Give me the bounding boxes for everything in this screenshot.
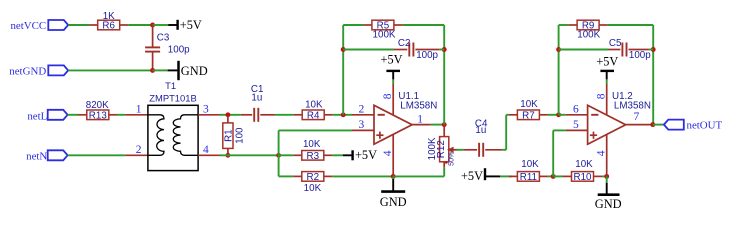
svg-text:netVCC: netVCC [10, 20, 46, 32]
net label netL [27, 110, 67, 123]
svg-text:10K: 10K [520, 99, 538, 110]
svg-text:820K: 820K [86, 100, 109, 111]
svg-text:100p: 100p [168, 44, 190, 55]
resistor R3 [293, 151, 332, 163]
svg-text:+5V: +5V [596, 55, 618, 69]
designator U1.2 [612, 91, 633, 102]
wire branch to R2 [279, 175, 294, 177]
pin 3 stub of U1.1 [352, 129, 374, 131]
junction node fb-right/C2 [442, 47, 447, 52]
pin 7 output lead of U1.2 [626, 124, 653, 126]
svg-text:7: 7 [634, 111, 640, 123]
value 10K of R11 [521, 159, 539, 170]
svg-text:C5: C5 [609, 38, 622, 49]
value 100p of C3 [168, 44, 190, 55]
wire feedback right column [443, 25, 445, 125]
wire node to R3 [279, 154, 294, 156]
svg-text:netL: netL [27, 110, 47, 122]
net label netN [26, 150, 67, 162]
value 100 of R1 [234, 127, 245, 144]
pin 3 lead of T1 [198, 114, 219, 116]
junction node pin4/R1 [225, 153, 230, 158]
power +5V (at R3) [343, 148, 377, 162]
svg-text:LM358N: LM358N [400, 100, 437, 111]
power +5V (top left) [168, 18, 202, 32]
pin pad dot of R12 [445, 161, 448, 164]
junction node R10/GND [604, 174, 609, 179]
svg-text:4: 4 [203, 144, 209, 156]
wire +5V to R11 [500, 175, 512, 177]
wire fb2 top left [559, 24, 569, 26]
junction node fb2-right/C5 [651, 47, 656, 52]
wire C1 to R4 [275, 114, 294, 116]
wire node to pin6 [559, 114, 566, 116]
value 1u of C4 [475, 125, 486, 136]
svg-text:R13: R13 [89, 111, 108, 122]
wire node up to pin5 [553, 130, 566, 176]
pin number 5 of U1.2 [573, 119, 579, 131]
svg-text:100K: 100K [577, 29, 600, 40]
value 100K of R12 [427, 137, 438, 160]
value 1K of R6 [103, 11, 115, 22]
junction node R2/GND [391, 174, 396, 179]
wire fb top right [402, 24, 444, 26]
svg-text:1u: 1u [251, 93, 262, 104]
value 100p of C2 [416, 50, 438, 61]
plus sign of U1.1 [376, 132, 383, 139]
svg-text:+5V: +5V [381, 53, 403, 67]
label C4 [475, 118, 488, 129]
pin 4 lead of U1.1 [392, 134, 394, 176]
junction node R11/R10/pin5 [551, 174, 556, 179]
transformer T1 body [148, 105, 198, 170]
resistor R10 [563, 172, 602, 184]
svg-text:6: 6 [573, 103, 579, 115]
wire fb2 right column [652, 25, 654, 125]
svg-text:3: 3 [203, 103, 209, 115]
wire R10 to GND node [602, 175, 607, 177]
capacitor C4 [463, 143, 502, 157]
pin 4 lead of T1 [198, 154, 219, 156]
resistor R11 [509, 172, 548, 184]
value 1u of C1 [251, 93, 262, 104]
designator U1.1 [398, 91, 419, 102]
svg-text:50%: 50% [449, 152, 456, 166]
wire +5V to pin8 U1.2 [606, 79, 608, 83]
svg-text:R2: R2 [307, 172, 320, 183]
transformer T1 value ZMPT101B [149, 93, 196, 104]
wire R2 to GND node [332, 175, 393, 177]
power +5V (above U1.1) [381, 53, 403, 80]
pin 1 output lead of U1.1 [412, 124, 431, 126]
wire R13 to T1 pin1 [117, 114, 125, 116]
junction node out2 [650, 122, 655, 127]
value LM358N of U1.2 [614, 100, 651, 111]
svg-text:10K: 10K [305, 100, 323, 111]
junction node out1 [442, 122, 447, 127]
svg-text:100K: 100K [373, 29, 396, 40]
svg-text:+5V: +5V [461, 169, 483, 183]
svg-text:netGND: netGND [9, 66, 46, 78]
svg-text:C2: C2 [398, 38, 411, 49]
wire wiper to C4 [457, 149, 464, 151]
lead out1 to R12 [443, 125, 445, 137]
wire R6 to node C3top [128, 24, 152, 26]
potentiometer R12 [436, 137, 449, 162]
wire netGND to node [68, 69, 152, 71]
wire T1 pin4 row [220, 154, 279, 156]
label C3 [157, 33, 170, 44]
pin number 3 of U1.1 [359, 119, 365, 131]
svg-text:+5V: +5V [180, 18, 202, 32]
svg-text:8: 8 [596, 93, 608, 99]
op-amp U1.1 triangle [374, 105, 412, 144]
svg-text:R3: R3 [307, 151, 320, 162]
pin 1 lead of T1 [125, 114, 147, 116]
wire netVCC to R6 [68, 24, 89, 26]
wire node to GND sym [153, 69, 168, 71]
svg-text:GND: GND [595, 197, 622, 211]
value 10K of R7 [520, 99, 538, 110]
plus sign of U1.2 [590, 132, 597, 139]
label C1 [251, 84, 264, 95]
wire fb top left [343, 24, 363, 26]
svg-text:1K: 1K [103, 11, 115, 22]
wire C2 right [440, 49, 445, 51]
capacitor C5 [609, 43, 649, 57]
pin number 3 of T1 [203, 103, 209, 115]
svg-text:5: 5 [573, 119, 579, 131]
wire R3 to +5V [332, 154, 343, 156]
resistor R4 [294, 110, 333, 122]
pin 2 stub of U1.1 [352, 114, 374, 116]
transformer T1 secondary winding [173, 115, 198, 156]
wire netL to R13 [68, 114, 79, 116]
wire netN to T1 pin2 [68, 154, 126, 156]
wire GND node to R12 bottom [393, 167, 444, 176]
wire C4 to R7 [502, 115, 509, 150]
pin 5 stub of U1.2 [566, 129, 588, 131]
pin number 1 of U1.1 [417, 113, 423, 125]
pin 6 stub of U1.2 [566, 114, 588, 116]
svg-text:100p: 100p [629, 50, 651, 61]
svg-text:10K: 10K [575, 159, 593, 170]
pin number 4 of U1.2 [596, 150, 608, 156]
value 10K of R3 [303, 139, 321, 150]
net label netVCC [10, 20, 68, 32]
ground GND (under U1.1) [380, 176, 407, 209]
net label netGND [9, 65, 68, 77]
wire out2 to netOUT [653, 124, 664, 126]
svg-text:1u: 1u [475, 125, 486, 136]
junction node pin3/R1 [225, 112, 230, 117]
resistor R6 [89, 20, 128, 32]
svg-text:3: 3 [359, 119, 365, 131]
net label netOUT [664, 120, 723, 132]
svg-text:R4: R4 [307, 111, 320, 122]
svg-text:R7: R7 [522, 111, 535, 122]
value 10K of R4 [305, 100, 323, 111]
wire vertical branch to +input and R2 [278, 130, 280, 176]
pin 8 lead of U1.1 [392, 84, 394, 115]
resistor R2 [293, 172, 332, 184]
wiper arrow of R12 [447, 147, 457, 153]
junction node R7/fb2 [556, 112, 561, 117]
label 50% of R12 [449, 152, 456, 166]
svg-text:R10: R10 [574, 172, 593, 183]
pin number 2 of T1 [136, 144, 142, 156]
svg-text:C3: C3 [157, 33, 170, 44]
svg-text:10K: 10K [521, 159, 539, 170]
svg-text:4: 4 [382, 150, 394, 156]
transformer T1 designator [165, 80, 176, 91]
svg-text:+5V: +5V [355, 148, 377, 162]
junction node GND/C3 [150, 68, 155, 73]
op-amp U1.2 triangle [588, 105, 626, 144]
svg-text:T1: T1 [165, 80, 176, 91]
value LM358N of U1.1 [400, 100, 437, 111]
wire C5 left [559, 49, 609, 51]
svg-text:1: 1 [417, 113, 423, 125]
value 100K of R5 [373, 29, 396, 40]
lead R12 bottom [443, 162, 445, 168]
pin number 7 of U1.2 [634, 111, 640, 123]
svg-text:4: 4 [596, 150, 608, 156]
power +5V (at R11) [461, 168, 500, 183]
svg-text:10K: 10K [304, 183, 322, 194]
wire R11 to node [548, 175, 553, 177]
wire to +input of U1.1 [279, 129, 352, 131]
wire output to node [431, 124, 445, 126]
wire fb2 top right [608, 24, 654, 26]
minus sign of U1.1 [378, 114, 385, 116]
wire T1 pin3 to C1 [220, 114, 241, 116]
ground GND (under U1.2) [595, 176, 622, 211]
svg-text:1: 1 [136, 103, 142, 115]
resistor R7 [509, 110, 548, 122]
wire C2 left [343, 49, 393, 51]
label C2 [398, 38, 411, 49]
svg-text:100K: 100K [427, 137, 438, 160]
value 10K of R2 [304, 183, 322, 194]
svg-text:8: 8 [382, 93, 394, 99]
svg-text:R1: R1 [224, 129, 235, 142]
value 820K of R13 [86, 100, 109, 111]
svg-text:100: 100 [234, 127, 245, 144]
wire C5 right [649, 49, 653, 51]
wire node to R10 [553, 175, 563, 177]
wire node to +5V [153, 24, 169, 26]
pin number 8 of U1.1 [382, 93, 394, 99]
wire R4 to opamp node [333, 114, 352, 116]
pin number 2 of U1.1 [359, 103, 365, 115]
pin 8 lead of U1.2 [606, 84, 608, 115]
value 10K of R10 [575, 159, 593, 170]
wire +5V to pin8 [392, 79, 394, 83]
svg-text:GND: GND [380, 195, 407, 209]
wire fb2 left column [558, 25, 560, 115]
svg-text:10K: 10K [303, 139, 321, 150]
svg-text:LM358N: LM358N [614, 100, 651, 111]
resistor R5 [363, 20, 402, 32]
value 100p of C5 [629, 50, 651, 61]
transformer T1 primary winding [148, 115, 164, 156]
pin 4 lead of U1.2 [606, 134, 608, 176]
svg-text:ZMPT101B: ZMPT101B [149, 93, 196, 104]
svg-text:GND: GND [181, 64, 208, 78]
svg-text:netN: netN [26, 151, 47, 163]
capacitor C2 [394, 43, 440, 57]
pin 2 lead of T1 [125, 154, 147, 156]
resistor R1 (vertical) [223, 116, 235, 155]
wire R7 to fb2 node [548, 114, 559, 116]
capacitor C3 [145, 25, 160, 70]
wire feedback left column [342, 25, 344, 115]
svg-text:100p: 100p [416, 50, 438, 61]
svg-text:2: 2 [359, 103, 365, 115]
svg-text:R6: R6 [102, 21, 115, 32]
label C5 [609, 38, 622, 49]
value 100K of R9 [577, 29, 600, 40]
svg-text:netOUT: netOUT [687, 120, 723, 132]
junction node R4/feedback [341, 112, 346, 117]
resistor R9 [569, 20, 608, 32]
resistor R13 [78, 110, 117, 122]
pin number 4 of T1 [203, 144, 209, 156]
ground GND (netGND row) [168, 61, 208, 80]
power +5V (above U1.2) [596, 55, 618, 80]
minus sign of U1.2 [591, 114, 598, 116]
pin number 4 of U1.1 [382, 150, 394, 156]
capacitor C1 [241, 108, 275, 122]
junction node fb2-left/C5 [556, 47, 561, 52]
pin number 8 of U1.2 [596, 93, 608, 99]
junction node VCC/C3 [150, 23, 155, 28]
svg-text:2: 2 [136, 144, 142, 156]
pin number 6 of U1.2 [573, 103, 579, 115]
pin number 1 of T1 [136, 103, 142, 115]
svg-text:R11: R11 [520, 172, 537, 183]
junction node pin4 branch [276, 153, 281, 158]
junction node fb-left/C2 [341, 47, 346, 52]
